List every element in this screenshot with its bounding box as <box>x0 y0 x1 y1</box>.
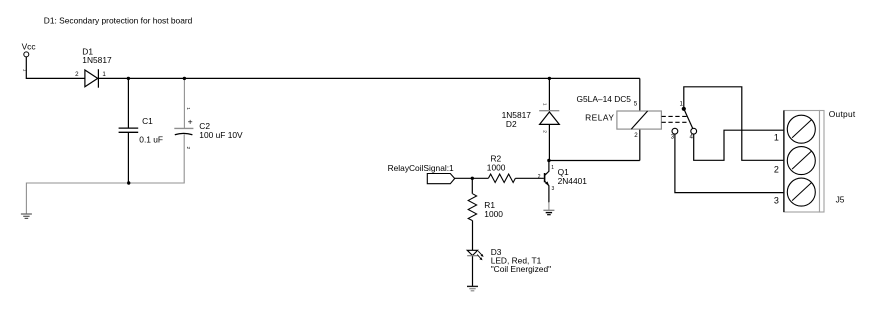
svg-text:Vcc: Vcc <box>22 41 36 51</box>
svg-text:1: 1 <box>774 132 779 142</box>
svg-text:2: 2 <box>634 132 638 139</box>
svg-text:3: 3 <box>671 134 675 141</box>
svg-text:1: 1 <box>102 71 106 78</box>
svg-text:1N5817: 1N5817 <box>82 55 112 65</box>
svg-text:C1: C1 <box>142 116 153 126</box>
svg-text:1: 1 <box>21 69 27 72</box>
svg-text:Output: Output <box>829 109 856 119</box>
svg-text:+: + <box>188 116 193 126</box>
svg-text:J5: J5 <box>836 195 845 205</box>
svg-text:1000: 1000 <box>484 209 503 219</box>
svg-text:D2: D2 <box>506 119 517 129</box>
svg-text:1000: 1000 <box>487 162 506 172</box>
svg-text:1: 1 <box>551 165 554 171</box>
svg-text:3: 3 <box>552 186 555 192</box>
svg-text:2: 2 <box>541 130 547 133</box>
svg-text:D1: Secondary protection for h: D1: Secondary protection for host board <box>44 15 193 25</box>
svg-text:2: 2 <box>185 147 191 150</box>
svg-text:5: 5 <box>634 101 638 108</box>
svg-text:1: 1 <box>185 107 191 110</box>
svg-text:RelayCoilSignal:1: RelayCoilSignal:1 <box>388 163 454 173</box>
svg-text:2N4401: 2N4401 <box>558 176 588 186</box>
svg-text:3: 3 <box>774 195 779 205</box>
svg-text:2: 2 <box>75 71 79 78</box>
svg-text:2: 2 <box>538 174 541 180</box>
svg-text:G5LA–14 DC5: G5LA–14 DC5 <box>577 94 632 104</box>
svg-text:1: 1 <box>541 103 547 106</box>
svg-text:1: 1 <box>679 100 683 107</box>
svg-text:4: 4 <box>690 134 694 141</box>
svg-text:2: 2 <box>774 164 779 174</box>
svg-text:"Coil Energized": "Coil Energized" <box>491 264 551 274</box>
svg-text:100 uF 10V: 100 uF 10V <box>199 130 243 140</box>
svg-text:RELAY: RELAY <box>585 113 614 123</box>
svg-text:0.1 uF: 0.1 uF <box>139 135 163 145</box>
